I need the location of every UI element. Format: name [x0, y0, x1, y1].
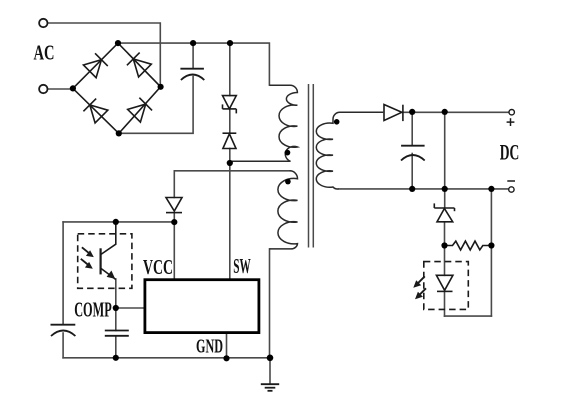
svg-text:GND: GND — [196, 336, 223, 358]
winding W2 polarity dot — [285, 179, 291, 185]
node minus cap — [409, 186, 415, 192]
transformer T1 primary winding W1 — [230, 85, 298, 161]
ground symbol — [261, 384, 279, 391]
wire SW column — [229, 163, 231, 280]
node minus right — [488, 186, 494, 192]
transformer T1 secondary winding W3 — [316, 112, 383, 189]
bridge diode D4 bottom-right — [128, 98, 152, 122]
wire AC top to bridge right — [48, 23, 161, 87]
svg-text:SW: SW — [233, 254, 251, 278]
wire minus rail — [339, 188, 509, 190]
DC plus terminal — [509, 110, 514, 115]
node opto collector — [113, 219, 119, 225]
node dots — [70, 40, 495, 361]
output capacitor C2 — [401, 146, 425, 161]
wire aux winding return — [269, 249, 271, 358]
wire AC bottom to bridge left — [48, 88, 73, 90]
capacitor C3 left — [51, 325, 76, 336]
phototransistor emitter arrowhead — [107, 271, 116, 279]
wire filter cap bottom lead to bridge bottom — [119, 77, 193, 134]
wire VCC node to optocoupler collector — [63, 221, 174, 223]
wire output diode to plus terminal — [403, 111, 509, 113]
output diode D8 — [384, 105, 403, 122]
node bridge right — [158, 84, 164, 90]
node cap C1 top — [190, 40, 196, 46]
AC input terminal bottom — [39, 85, 47, 93]
winding W1 polarity dot — [285, 150, 291, 156]
minus sign — [507, 180, 515, 182]
wire LED top lead — [444, 246, 446, 276]
optocoupler U2 LED dashed box — [424, 262, 469, 310]
phototransistor Q1 — [101, 222, 116, 280]
node bridge top — [115, 40, 121, 46]
wire bottom ground rail — [63, 357, 270, 359]
optocoupler U2 phototransistor dashed box — [78, 234, 132, 288]
LED light arrows — [413, 276, 426, 299]
wire LED bottom lead — [444, 291, 446, 316]
wire top rail from bridge top to transformer — [118, 43, 269, 85]
wire ground stem — [269, 358, 271, 384]
wire filter cap top lead — [192, 43, 194, 68]
wire aux winding to VCC diode — [174, 171, 289, 198]
resistor R1 — [445, 241, 492, 250]
node TVS top — [227, 40, 233, 46]
bridge rectifier arms — [73, 43, 161, 133]
wire right feedback column — [490, 189, 492, 316]
bridge diode D1 top-left — [83, 53, 107, 77]
zener diode D9 — [434, 203, 454, 221]
AC input terminal top — [39, 19, 47, 27]
DC minus terminal — [509, 187, 514, 192]
transformer T1 aux winding W2 — [270, 171, 298, 249]
node resistor right — [488, 242, 494, 248]
svg-text:AC: AC — [34, 41, 55, 65]
wire optocoupler emitter to COMP cap — [115, 279, 117, 331]
wire output cap top lead — [411, 112, 413, 145]
wire TVS clamp top lead — [229, 43, 231, 96]
node clamp SW — [227, 160, 233, 166]
bridge diode D2 top-right — [127, 53, 151, 77]
node diode out — [409, 109, 415, 115]
wire left column lower — [62, 333, 64, 358]
LED D10 — [436, 275, 453, 291]
bridge diode D3 bottom-left — [83, 99, 107, 123]
transformer T1 core — [309, 84, 314, 248]
node rail GND — [223, 355, 229, 361]
svg-text:DC: DC — [500, 139, 520, 164]
light arrows into phototransistor — [81, 247, 94, 268]
node plus rail — [442, 109, 448, 115]
plus sign — [507, 118, 515, 126]
node rail COMP — [113, 355, 119, 361]
clamp diode D6 — [223, 133, 237, 148]
wire clamp bottom lead to node — [229, 149, 231, 164]
node rail aux return — [267, 355, 274, 362]
wire GND pin — [226, 333, 228, 359]
capacitor C4 COMP — [105, 331, 129, 336]
node bridge bottom — [116, 130, 122, 136]
wire output cap bottom lead — [411, 154, 413, 189]
wire clamp middle lead — [229, 109, 231, 133]
wire LED return bottom — [445, 315, 492, 317]
wire COMP cap bottom lead — [115, 336, 117, 358]
node zener resistor — [441, 242, 447, 248]
node COMP — [113, 305, 119, 311]
node VCC — [171, 219, 177, 225]
svg-text:COMP: COMP — [74, 298, 112, 322]
filter capacitor C1 — [180, 69, 204, 80]
wire COMP node to IC — [116, 307, 145, 309]
wire VCC diode to VCC pin — [173, 213, 175, 280]
TVS zener D5 — [223, 96, 237, 114]
VCC diode D7 — [166, 198, 182, 213]
node bridge left — [70, 85, 76, 91]
IC U1 box — [145, 280, 259, 333]
wire plus node down to zener — [444, 112, 446, 208]
winding W3 polarity dot — [334, 119, 340, 125]
node minus mid — [442, 186, 448, 192]
wire zener to resistor node — [444, 222, 446, 246]
svg-text:VCC: VCC — [143, 255, 173, 279]
wire left column upper — [62, 222, 64, 325]
